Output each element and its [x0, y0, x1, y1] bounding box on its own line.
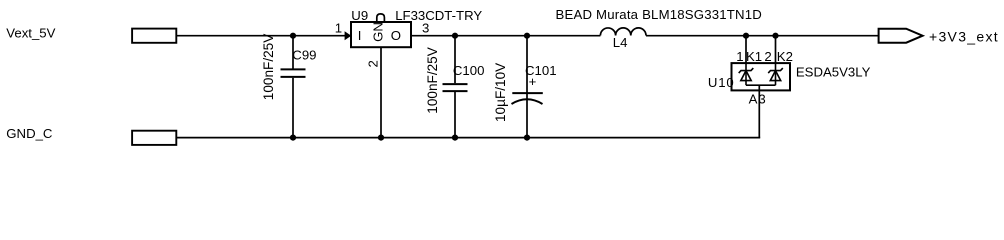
svg-text:O: O [391, 28, 401, 43]
IC U9 voltage regulator box [351, 22, 411, 47]
pin 1 input arrow of U9 [345, 31, 352, 40]
svg-text:U10: U10 [708, 75, 735, 90]
zener diode K1-A inside U10 [739, 63, 754, 85]
wire U9 pin 2 to ground rail [380, 47, 382, 137]
IC U10 ESD diode array box [732, 63, 791, 90]
wire U10 pin K1 [745, 36, 747, 63]
junction node C99 bottom [290, 135, 296, 141]
svg-text:1: 1 [335, 21, 342, 36]
junction node U9 pin 2 bottom [378, 135, 384, 141]
svg-text:C99: C99 [292, 48, 316, 63]
junction node C101 top [524, 33, 530, 39]
svg-text:BEAD Murata BLM18SG331TN1D: BEAD Murata BLM18SG331TN1D [556, 7, 763, 22]
svg-text:L4: L4 [613, 35, 628, 50]
wire ground rail [177, 137, 760, 139]
svg-text:U9: U9 [351, 8, 368, 23]
svg-text:GND_C: GND_C [6, 126, 53, 141]
inductor L4 ferrite bead [600, 28, 646, 36]
wire U10 pin A3 down to ground rail [758, 85, 760, 137]
svg-text:100nF/25V: 100nF/25V [261, 34, 276, 101]
svg-text:2: 2 [365, 60, 380, 67]
svg-text:K1: K1 [746, 49, 762, 64]
zener diode K2-A inside U10 [768, 63, 783, 85]
svg-text:GN: GN [371, 22, 386, 42]
junction node C99 top [290, 33, 296, 39]
wire top rail from U9 pin 3 to L4 [411, 35, 600, 37]
connector pad Vext_5V [132, 29, 176, 43]
junction node C100 bottom [452, 135, 458, 141]
junction node C100 top [452, 33, 458, 39]
svg-text:2: 2 [764, 49, 771, 64]
connector arrow +3V3_ext [879, 29, 923, 43]
svg-text:ESDA5V3LY: ESDA5V3LY [796, 64, 871, 79]
capacitor C101 polarized [512, 36, 543, 138]
wire common anode inside U10 [746, 84, 776, 86]
junction node C101 bottom [524, 135, 530, 141]
svg-text:K2: K2 [777, 49, 793, 64]
svg-text:Vext_5V: Vext_5V [6, 25, 55, 40]
svg-text:3: 3 [422, 21, 429, 36]
capacitor C99 [281, 36, 306, 138]
svg-text:C100: C100 [453, 63, 485, 78]
capacitor C100 [443, 36, 468, 138]
svg-text:+: + [529, 74, 537, 89]
wire top rail from Vext_5V pad to U9 pin 1 [177, 35, 345, 37]
svg-text:A3: A3 [749, 91, 767, 106]
svg-text:100nF/25V: 100nF/25V [425, 47, 440, 114]
svg-text:1: 1 [736, 49, 743, 64]
junction node U10 K2 [772, 33, 778, 39]
wire U10 pin K2 [775, 36, 777, 63]
junction node U10 K1 [743, 33, 749, 39]
svg-text:10µF/10V: 10µF/10V [493, 63, 508, 122]
connector pad GND_C [132, 131, 176, 145]
svg-text:+3V3_ext: +3V3_ext [929, 29, 999, 45]
svg-text:I: I [358, 28, 362, 43]
svg-text:LF33CDT-TRY: LF33CDT-TRY [395, 8, 482, 23]
wire top rail from L4 to +3V3_ext connector [646, 35, 879, 37]
